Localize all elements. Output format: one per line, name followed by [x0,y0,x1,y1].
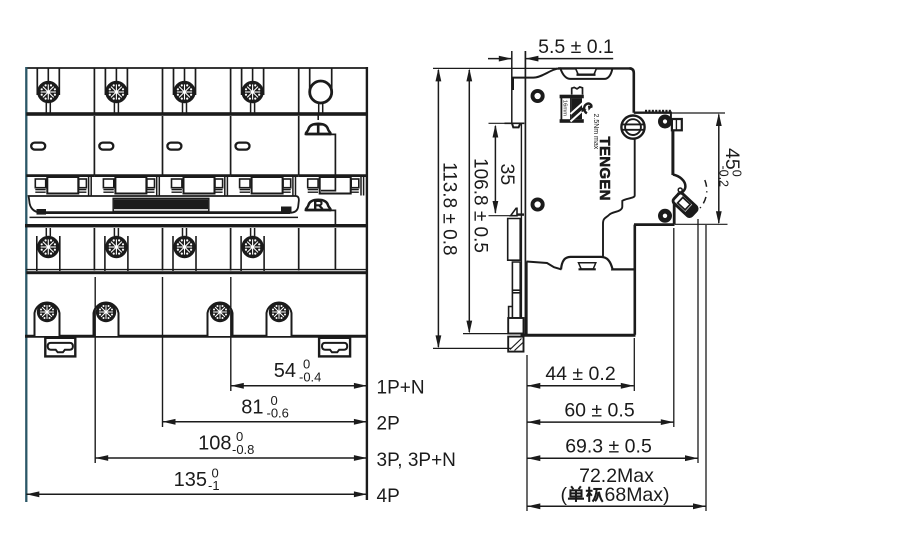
dim 60±0.5 [527,399,674,425]
dim 69.3±0.5 [527,435,698,461]
right edge with lower extension line [366,67,368,500]
toggle grip black bar [113,198,209,211]
svg-text:3P, 3P+N: 3P, 3P+N [377,450,456,471]
svg-text:2P: 2P [377,414,400,435]
toggle bar left end block [37,209,47,215]
pole 1 indicator window [31,143,45,150]
bottom terminal screw 1 [35,302,60,336]
body back edge line (5.5 ext) [524,51,526,335]
dim 35 [489,123,518,215]
torque icon wedge [582,107,587,112]
svg-text:5.5 ± 0.1: 5.5 ± 0.1 [538,36,614,58]
toggle handle [671,191,699,219]
reset circuit line [329,210,335,224]
DIN clip box [508,318,523,334]
pole separator lines top band [94,68,298,113]
torque icon hook arrow [588,106,593,111]
terminal serration teeth [645,110,671,113]
svg-text:44 ± 0.2: 44 ± 0.2 [545,363,615,385]
svg-text:113.8 ± 0.8: 113.8 ± 0.8 [439,162,460,256]
front view dim 54 [231,277,425,399]
torque icon wrench hook [584,104,591,114]
svg-text:108: 108 [198,433,231,455]
svg-text:-1: -1 [208,478,220,493]
back recess line [520,124,522,318]
svg-text:69.3 ± 0.5: 69.3 ± 0.5 [565,435,652,457]
lower module top bump [561,257,613,270]
front face edge [671,130,674,175]
terminal screw head [621,116,644,139]
side bottom extension lines [527,219,706,511]
lower module top face [611,268,635,270]
DIN clip slider bars [508,219,521,319]
svg-text:-0.4: -0.4 [299,369,321,384]
pole 2 lower screw [105,228,128,271]
toggle bar inner line [30,216,299,218]
horizontal double band above bottom section [26,269,367,271]
lower terminal pin [660,211,670,221]
dim 44±0.2 [527,363,634,389]
svg-text:135: 135 [174,469,207,491]
pole 1 lower screw [37,228,60,271]
back plane line (5.5 ext / DIN face) [511,51,513,123]
lower module top slant from back [527,262,562,270]
test circuit line [321,134,335,190]
torque icon box [560,95,584,123]
dim 45 0/-0.2 [671,113,743,224]
pole 1 top terminal screw [37,68,59,113]
top extension line [433,67,557,69]
svg-text:106.8 ± 0.5: 106.8 ± 0.5 [470,158,491,253]
svg-text:4P: 4P [377,486,400,507]
side body top left step outline [513,68,561,90]
bottom terminal screw 3 [208,302,233,336]
upper terminal pin [660,116,670,126]
torque icon flag [572,87,583,95]
pivot dot [678,188,682,192]
lower module back edge [526,262,528,335]
svg-text:60 ± 0.5: 60 ± 0.5 [564,399,634,421]
upper DIN claw [505,123,525,127]
svg-text:16mm: 16mm [562,100,568,116]
svg-text:(: ( [561,484,568,506]
front view dim 135 [26,465,399,507]
test button T [305,113,331,134]
bottom edge [25,335,368,338]
svg-text:-0.6: -0.6 [267,406,289,421]
horizontal thick band below handle bar [25,224,367,227]
wire clamp small box [672,119,682,130]
terminal clamp band modules 1-5 [26,176,94,196]
right DIN rail tab [319,338,350,357]
lower DIN claw [511,208,524,215]
top vent tab [576,68,597,74]
pole separator lines mid band [94,116,298,175]
pole 3 lower screw [173,228,196,271]
hanzi dan (single) [568,486,584,502]
pole 2 top terminal screw [105,68,127,113]
pole 4 top terminal screw [241,68,263,113]
lower module bottom edge [521,334,636,337]
pole 4 lower screw [241,228,264,271]
front edge below boss [673,203,676,225]
horizontal thick band below top screws [26,112,367,116]
front view dim 108 [95,277,456,471]
pole 2 indicator window [99,143,113,150]
front part bottom edge [634,223,675,226]
svg-text:-0.8: -0.8 [232,442,254,457]
bottom terminal screw 2 [94,302,119,336]
svg-text:54: 54 [274,360,296,382]
handle pivot boss [673,175,686,194]
internal contour from screw to lower body [603,139,635,257]
pole 3 indicator window [167,143,181,150]
reset button R [305,200,331,211]
pole 4 indicator window [236,143,250,150]
svg-text:35: 35 [496,164,518,186]
left edge (teal) with lower extension line [25,67,27,502]
front view dim 81 [163,277,400,435]
upper rivet [533,91,543,101]
side body top right corner and front edge [630,68,634,112]
reset line lower segment [334,228,336,270]
dim 113.8±0.8 [433,68,511,348]
handle travel dash-dot arc [695,180,707,213]
svg-text:TENGEN: TENGEN [596,137,613,201]
lower rivet [533,199,543,209]
terminal front upper edge [670,112,672,120]
dim 106.8±0.5 [463,68,524,333]
DIN clip foot [508,337,523,352]
svg-text:450-0.2: 450-0.2 [716,148,743,187]
front view body outline [25,67,368,502]
top recess [561,69,613,79]
terminal top edge [634,111,671,113]
left DIN rail tab [45,338,75,357]
common toggle bar outline [29,196,299,213]
toggle bar thick bottom line [40,211,290,214]
pole 3 top terminal screw [173,68,195,113]
svg-text:1P+N: 1P+N [377,378,425,399]
hanzi ji (pole) [586,487,603,502]
pole separator lines lower band [94,228,298,271]
svg-text:81: 81 [241,396,263,418]
svg-text:68Max): 68Max) [605,484,670,506]
module 5 plain top hole [310,68,332,113]
dim 5.5±0.1 [488,36,614,62]
bottom terminal screw 4 [267,302,292,336]
dim 72.2Max [527,465,706,509]
top edge [26,67,367,69]
mid front vertical edge [633,225,636,335]
side body top face [558,67,632,69]
toggle bar right end block [281,207,292,214]
bump vent slot [579,263,596,270]
